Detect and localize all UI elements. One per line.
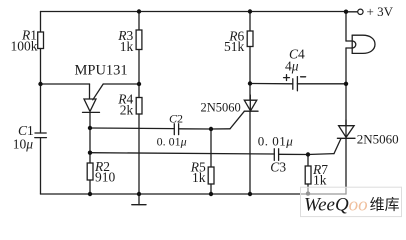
svg-text:10μ: 10μ: [13, 137, 34, 152]
wire R2 top lead: [89, 153, 91, 163]
resistor R6: [247, 31, 253, 47]
capacitor C3: [274, 149, 278, 161]
resistor R1: [38, 32, 44, 49]
svg-text:0. 01μ: 0. 01μ: [157, 135, 187, 149]
capacitor C2: [174, 124, 178, 135]
wire node E to SCR2 gate bend: [308, 153, 334, 156]
thyristor Q1 2N5060: [244, 95, 258, 111]
resistor R3: [136, 30, 142, 50]
label C4 value: [285, 46, 305, 73]
svg-text:MPU131: MPU131: [75, 62, 128, 78]
label R5 value: [190, 160, 206, 185]
svg-text:C2: C2: [169, 111, 183, 125]
wire R7 bottom to bottom rail: [307, 184, 309, 194]
svg-text:1k: 1k: [313, 173, 327, 188]
wire R3 top lead: [138, 12, 140, 31]
resistor R4: [136, 98, 142, 115]
terminal +3V circle: [358, 9, 363, 14]
capacitor C1: [35, 133, 47, 138]
node rail ground: [137, 192, 141, 196]
resistor R7: [305, 166, 311, 184]
label R4 value: [117, 91, 133, 117]
capacitor C4: [284, 75, 306, 91]
wire C1 bottom to bottom rail: [40, 138, 42, 194]
resistor R2: [87, 163, 93, 180]
node rail R2: [88, 192, 92, 196]
svg-text:4μ: 4μ: [285, 58, 299, 73]
svg-text:51k: 51k: [224, 39, 245, 54]
thyristor Q2 2N5060: [337, 120, 355, 138]
wire C2 right to node D: [179, 128, 211, 130]
node B (MPU cathode/C2): [88, 126, 92, 130]
wire +3V terminal lead: [346, 11, 358, 13]
label R6 value: [224, 29, 245, 54]
node top R3 junction: [137, 9, 141, 13]
wire MPU anode lead: [89, 84, 91, 99]
wire left rail upper (R1 top lead): [40, 12, 42, 33]
wire R6 top lead: [249, 12, 251, 32]
wire node G to SCR2 anode: [345, 84, 347, 126]
wire MPU cathode to node B: [89, 112, 91, 128]
svg-text:910: 910: [95, 169, 116, 184]
wire node C to R4 top: [138, 84, 140, 98]
wire C3 right to node E: [279, 153, 308, 155]
earphone: [346, 35, 375, 53]
node E (C3/R7/SCR2 gate): [306, 152, 310, 156]
svg-text:1k: 1k: [192, 170, 206, 185]
wire node B to C2: [90, 127, 174, 130]
wire node F to C4: [250, 83, 293, 85]
label C2 value: [157, 111, 187, 148]
wire earphone bottom to node G: [345, 48, 347, 84]
transistor MPU131 (PUT): [83, 84, 104, 112]
node rail R5: [209, 192, 213, 196]
wire R6 bottom to node F: [249, 47, 251, 84]
wire R1 bottom to node A: [40, 49, 42, 85]
wire SCR1 cathode to bottom rail: [249, 111, 251, 194]
node A (R1/C1/anode wire): [38, 82, 42, 86]
node top right junction: [344, 10, 348, 14]
wire node D to R5: [210, 129, 212, 167]
wire R4 bottom to bottom rail: [138, 114, 140, 194]
wire node B to R2 row node: [89, 128, 91, 153]
label R1 value: [11, 28, 38, 54]
resistor R5: [208, 167, 214, 184]
wire node F to SCR1 anode: [249, 84, 251, 101]
svg-text:+ 3V: + 3V: [367, 4, 394, 19]
node C (R3/R4 gate divider): [137, 82, 141, 86]
label C3 value: [258, 133, 294, 174]
node rail SCR1: [248, 192, 252, 196]
wire right column top (to earphone): [345, 12, 347, 42]
wire SCR1 gate diagonal: [230, 111, 244, 129]
wire bottom rail: [41, 193, 347, 195]
svg-text:100k: 100k: [11, 39, 38, 54]
svg-text:C3: C3: [270, 159, 286, 174]
wire gate segment to R3/R4 node: [103, 83, 139, 85]
node R2 top (C3 row): [88, 151, 92, 155]
node F (R6/SCR1/C4): [248, 81, 252, 85]
watermark WeeQoo: [301, 187, 402, 216]
svg-text:2N5060: 2N5060: [357, 131, 399, 146]
label C1 value: [13, 123, 34, 152]
wire top rail: [41, 11, 347, 13]
wire C3 row from R2 node: [90, 153, 274, 154]
wire SCR2 cathode to bottom rail: [345, 138, 347, 194]
node D (C2/R5/SCR1 gate): [209, 127, 213, 131]
wire node A horizontal to MPU anode: [41, 83, 90, 85]
wire R3 bottom to node C: [138, 50, 140, 85]
svg-text:2N5060: 2N5060: [201, 101, 241, 115]
svg-text:0. 01μ: 0. 01μ: [258, 133, 294, 148]
label R7 value: [312, 162, 328, 187]
wire node A to C1: [40, 84, 42, 133]
wire R2 bottom to bottom rail: [89, 180, 91, 194]
wire SCR2 gate diagonal: [334, 139, 341, 154]
ground: [132, 194, 146, 205]
svg-text:1k: 1k: [120, 39, 134, 54]
wire node E to R7: [307, 155, 309, 167]
wire C4 right to node G: [297, 83, 346, 85]
svg-text:2k: 2k: [120, 102, 134, 117]
label R2 value: [94, 159, 116, 184]
wire node D to SCR1 gate bend: [211, 128, 230, 130]
wire R5 bottom to bottom rail: [210, 184, 212, 194]
label R3 value: [117, 28, 133, 54]
node top R6 junction: [248, 9, 252, 13]
node G (C4/earphone/SCR2): [344, 82, 348, 86]
svg-text:WeeQoo维库: WeeQoo维库: [304, 195, 400, 216]
node rail R7: [306, 191, 310, 195]
